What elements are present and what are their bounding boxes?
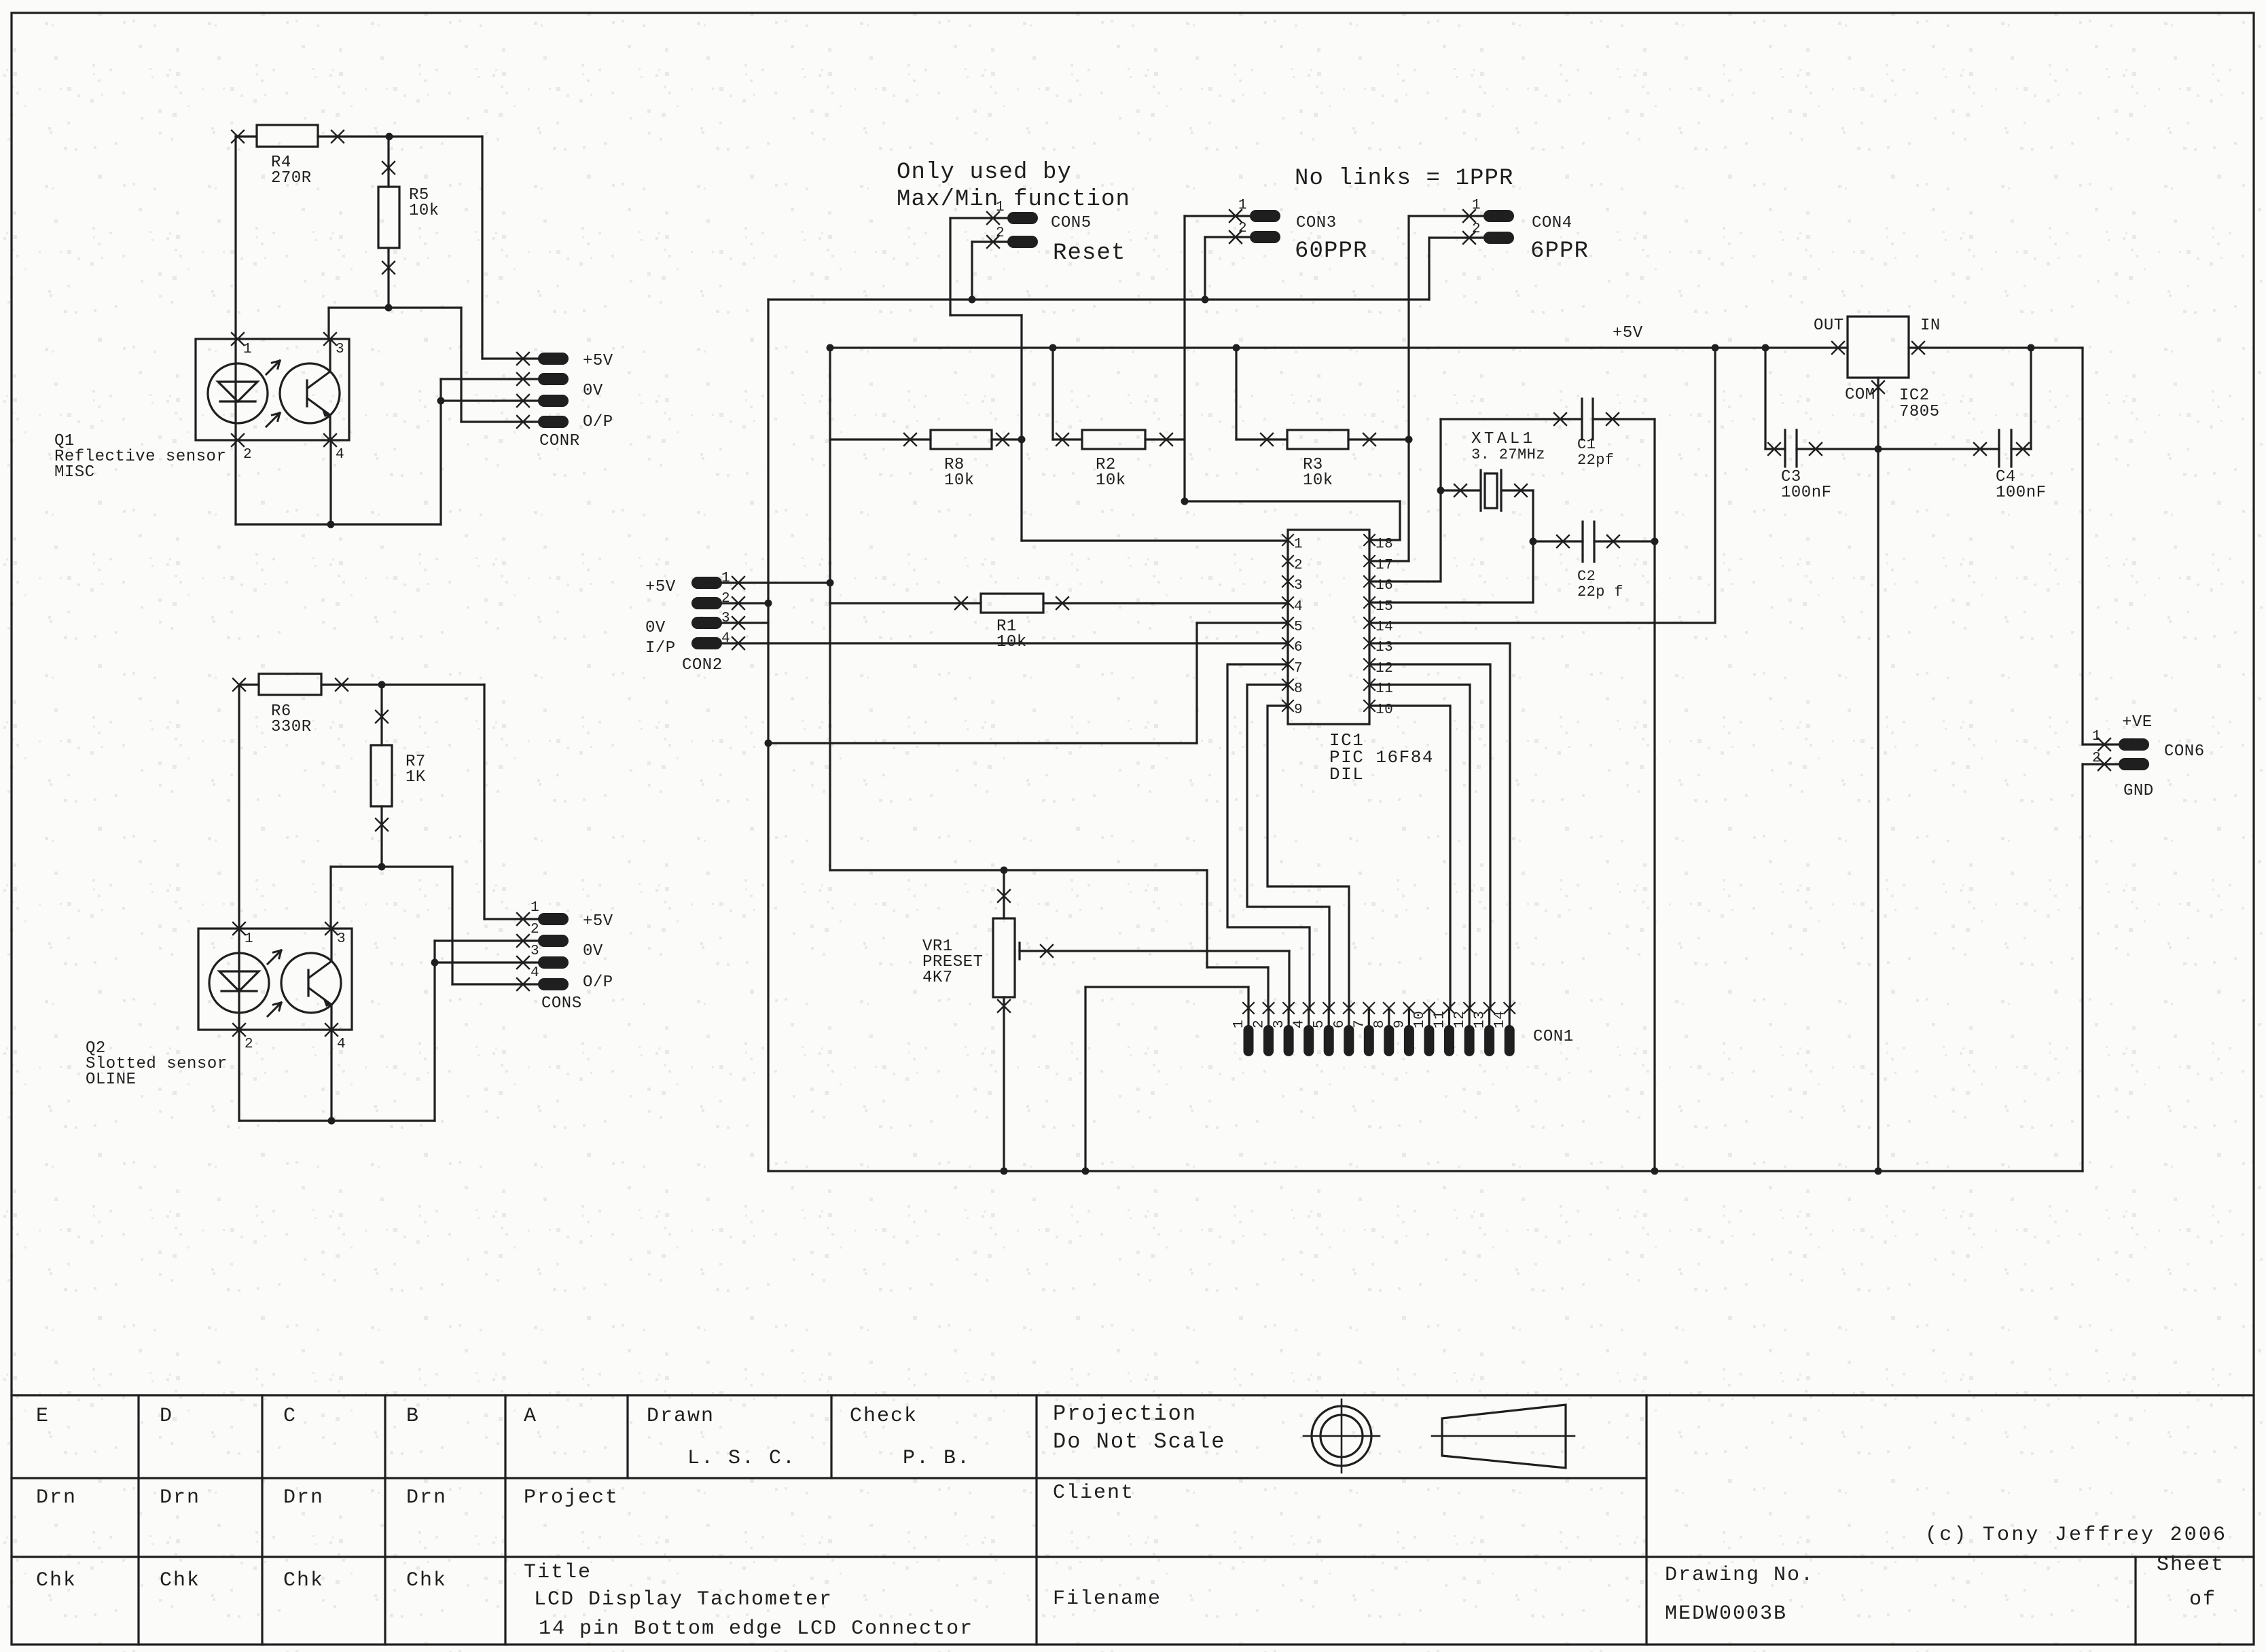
svg-text:+5V: +5V [583, 912, 613, 931]
svg-text:8: 8 [1372, 1020, 1388, 1028]
svg-text:5: 5 [1294, 619, 1303, 635]
svg-text:10k: 10k [1096, 471, 1126, 490]
svg-text:1: 1 [1472, 198, 1481, 213]
svg-text:1: 1 [1231, 1020, 1247, 1028]
svg-text:3: 3 [1294, 578, 1303, 594]
svg-text:COM: COM [1845, 386, 1875, 404]
svg-text:OLINE: OLINE [86, 1071, 137, 1089]
svg-text:+5V: +5V [645, 578, 676, 596]
svg-text:11: 11 [1433, 1011, 1448, 1028]
svg-text:14 pin Bottom edge LCD Connect: 14 pin Bottom edge LCD Connector [539, 1617, 973, 1640]
svg-text:C1: C1 [1577, 436, 1596, 453]
svg-text:+5V: +5V [583, 352, 613, 370]
svg-text:17: 17 [1375, 558, 1393, 573]
svg-text:No links = 1PPR: No links = 1PPR [1295, 166, 1514, 192]
svg-text:4: 4 [1292, 1020, 1308, 1028]
svg-text:9: 9 [1294, 702, 1303, 718]
svg-text:+VE: +VE [2122, 713, 2153, 732]
svg-text:(c) Tony Jeffrey 2006: (c) Tony Jeffrey 2006 [1925, 1524, 2227, 1547]
svg-text:Chk: Chk [406, 1569, 447, 1592]
svg-text:CON6: CON6 [2164, 742, 2205, 761]
svg-text:Drawing No.: Drawing No. [1665, 1564, 1814, 1587]
svg-text:CON1: CON1 [1533, 1028, 1574, 1046]
svg-text:18: 18 [1375, 537, 1393, 552]
svg-text:2: 2 [1472, 221, 1481, 237]
svg-text:2: 2 [245, 1037, 253, 1052]
svg-text:Reset: Reset [1053, 240, 1126, 266]
svg-text:7: 7 [1294, 661, 1303, 677]
svg-text:Do Not Scale: Do Not Scale [1053, 1429, 1225, 1454]
svg-text:3. 27MHz: 3. 27MHz [1471, 446, 1545, 463]
svg-text:1: 1 [530, 900, 539, 916]
svg-text:2: 2 [1238, 221, 1247, 236]
svg-text:Drn: Drn [406, 1486, 447, 1509]
svg-text:IC2: IC2 [1899, 387, 1930, 405]
svg-text:10k: 10k [944, 471, 975, 490]
svg-text:DIL: DIL [1329, 764, 1364, 785]
svg-text:1: 1 [1294, 537, 1303, 552]
svg-text:1: 1 [2092, 729, 2101, 744]
svg-text:MEDW0003B: MEDW0003B [1665, 1602, 1787, 1626]
svg-text:LCD Display Tachometer: LCD Display Tachometer [534, 1588, 833, 1611]
svg-text:B: B [406, 1405, 420, 1428]
svg-text:60PPR: 60PPR [1295, 238, 1368, 264]
svg-text:4: 4 [1294, 599, 1303, 615]
svg-text:Title: Title [524, 1561, 592, 1584]
svg-text:2: 2 [530, 922, 539, 937]
svg-text:4K7: 4K7 [922, 969, 953, 987]
svg-text:Drn: Drn [36, 1486, 77, 1509]
svg-text:Projection: Projection [1053, 1401, 1197, 1426]
svg-text:7805: 7805 [1899, 403, 1940, 421]
svg-text:OUT: OUT [1814, 317, 1844, 335]
svg-text:Max/Min function: Max/Min function [897, 187, 1130, 213]
svg-text:C: C [283, 1405, 297, 1428]
svg-text:O/P: O/P [583, 413, 613, 431]
svg-text:Filename: Filename [1053, 1587, 1162, 1611]
svg-text:O/P: O/P [583, 973, 613, 992]
svg-text:8: 8 [1294, 681, 1303, 697]
svg-text:3: 3 [1272, 1020, 1287, 1028]
svg-text:7: 7 [1352, 1020, 1367, 1028]
svg-text:1: 1 [1238, 198, 1247, 213]
svg-text:6: 6 [1294, 640, 1303, 656]
svg-text:CON5: CON5 [1051, 214, 1092, 232]
svg-text:Drawn: Drawn [647, 1405, 715, 1428]
svg-text:3: 3 [337, 931, 346, 947]
svg-text:12: 12 [1452, 1011, 1468, 1028]
svg-text:6PPR: 6PPR [1530, 238, 1589, 264]
svg-text:4: 4 [530, 965, 539, 981]
svg-text:C2: C2 [1577, 568, 1596, 585]
svg-text:3: 3 [530, 944, 539, 959]
svg-text:3: 3 [336, 342, 344, 357]
svg-text:Drn: Drn [283, 1486, 324, 1509]
svg-text:10k: 10k [996, 633, 1027, 651]
svg-text:13: 13 [1473, 1011, 1488, 1028]
svg-text:IN: IN [1920, 317, 1941, 335]
svg-text:MISC: MISC [54, 463, 95, 482]
svg-text:E: E [36, 1405, 50, 1428]
svg-text:100nF: 100nF [1781, 484, 1832, 502]
svg-text:Check: Check [850, 1405, 918, 1428]
svg-text:2: 2 [1294, 558, 1303, 573]
svg-text:10k: 10k [1303, 471, 1333, 490]
svg-text:L. S. C.: L. S. C. [687, 1447, 796, 1470]
svg-text:D: D [160, 1405, 173, 1428]
svg-text:Chk: Chk [283, 1569, 324, 1592]
svg-text:Only used by: Only used by [897, 160, 1072, 185]
svg-text:2: 2 [996, 226, 1005, 241]
svg-text:CON2: CON2 [682, 656, 723, 675]
svg-text:Chk: Chk [160, 1569, 200, 1592]
svg-text:0V: 0V [583, 382, 603, 400]
svg-text:1: 1 [245, 931, 253, 947]
svg-text:P. B.: P. B. [903, 1447, 971, 1470]
svg-text:100nF: 100nF [1996, 484, 2047, 502]
svg-text:+5V: +5V [1613, 324, 1643, 342]
svg-text:6: 6 [1332, 1020, 1348, 1028]
svg-text:Project: Project [524, 1486, 619, 1509]
svg-text:CONS: CONS [541, 994, 582, 1013]
svg-text:270R: 270R [271, 169, 312, 187]
svg-text:4: 4 [337, 1037, 346, 1052]
svg-text:0V: 0V [583, 942, 603, 960]
svg-text:CON4: CON4 [1532, 214, 1572, 232]
svg-text:I/P: I/P [645, 639, 676, 658]
svg-text:Sheet: Sheet [2157, 1554, 2225, 1577]
svg-text:22pf: 22pf [1577, 452, 1614, 469]
svg-text:2: 2 [243, 447, 252, 463]
svg-text:9: 9 [1392, 1020, 1407, 1028]
svg-text:10: 10 [1412, 1011, 1428, 1028]
svg-text:14: 14 [1492, 1011, 1508, 1028]
svg-text:GND: GND [2123, 782, 2154, 800]
svg-text:4: 4 [336, 447, 344, 463]
svg-text:A: A [524, 1405, 537, 1428]
svg-text:1: 1 [243, 342, 252, 357]
svg-text:Client: Client [1053, 1482, 1134, 1505]
svg-text:0V: 0V [645, 619, 666, 637]
svg-text:CON3: CON3 [1296, 214, 1337, 232]
svg-text:Chk: Chk [36, 1569, 77, 1592]
svg-text:330R: 330R [271, 718, 312, 736]
svg-text:CONR: CONR [539, 432, 580, 450]
svg-text:22p f: 22p f [1577, 583, 1623, 600]
svg-text:2: 2 [1252, 1020, 1267, 1028]
svg-text:XTAL1: XTAL1 [1471, 430, 1536, 448]
svg-text:5: 5 [1312, 1020, 1327, 1028]
svg-text:of: of [2189, 1588, 2216, 1611]
svg-text:1K: 1K [406, 768, 426, 787]
svg-text:10k: 10k [409, 202, 439, 220]
svg-text:Drn: Drn [160, 1486, 200, 1509]
